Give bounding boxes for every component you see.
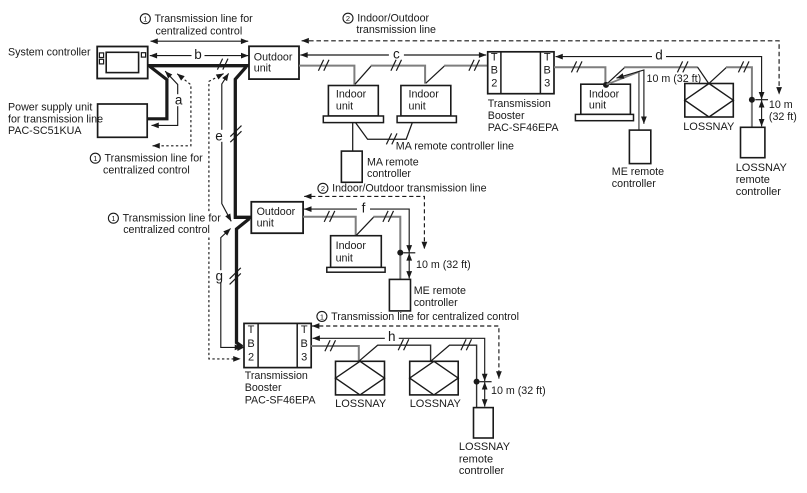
- svg-text:Indoor: Indoor: [336, 240, 367, 252]
- dimension line d: [556, 48, 762, 100]
- dimension line f: [304, 200, 409, 252]
- svg-text:controller: controller: [459, 465, 505, 477]
- svg-text:unit: unit: [409, 101, 426, 113]
- 10 m (32 ft) label (section 2): [416, 259, 471, 271]
- transmission booster 2 PAC-SF46EPA: [244, 323, 311, 367]
- svg-text:unit: unit: [254, 62, 271, 74]
- dimension line c: [300, 47, 486, 62]
- svg-text:Transmission line for: Transmission line for: [155, 13, 254, 25]
- svg-text:1: 1: [143, 15, 147, 24]
- indoor unit 1: [323, 86, 383, 123]
- svg-text:T: T: [544, 51, 551, 63]
- hash mark: [738, 61, 749, 72]
- svg-text:B: B: [301, 338, 308, 350]
- hash mark: [398, 339, 409, 350]
- junction dot (LOSSNAY remote controller 2): [474, 379, 480, 385]
- junction dot (ME remote controller 2): [397, 250, 403, 256]
- svg-text:(32 ft): (32 ft): [769, 111, 797, 123]
- hash mark on trunk (g span): [230, 268, 241, 285]
- system controller label: [8, 47, 91, 59]
- svg-text:T: T: [491, 51, 498, 63]
- svg-text:centralized control: centralized control: [103, 164, 190, 176]
- dimension: 10 m junction to LOSSNAY remote controller 2: [484, 382, 486, 406]
- hash mark: [469, 60, 480, 71]
- svg-text:2: 2: [491, 77, 497, 89]
- svg-text:b: b: [194, 47, 202, 62]
- svg-text:controller: controller: [736, 186, 782, 198]
- LOSSNAY 1 label: [683, 121, 735, 133]
- branch diagonal from indoor unit 3: [607, 67, 625, 84]
- hash mark: [324, 211, 335, 222]
- svg-text:1: 1: [320, 312, 324, 321]
- hash mark: [386, 133, 397, 144]
- svg-text:LOSSNAY: LOSSNAY: [459, 441, 511, 453]
- junction tick: [480, 381, 492, 383]
- hash mark: [677, 61, 688, 72]
- label: 1 Transmission line for centralized control (bottom): [317, 311, 519, 323]
- wire: TB3 to indoor unit 3: [554, 67, 605, 84]
- MA remote controller label: [367, 156, 419, 180]
- 10 m (32 ft) label (ME): [647, 73, 702, 85]
- svg-text:MA remote controller line: MA remote controller line: [396, 141, 514, 153]
- ME remote controller 2 label: [414, 285, 466, 309]
- svg-text:LOSSNAY: LOSSNAY: [736, 162, 788, 174]
- svg-text:B: B: [544, 64, 551, 76]
- svg-text:Transmission: Transmission: [488, 98, 551, 110]
- branch diagonal up from LOSSNAY 2b: [431, 345, 450, 361]
- svg-text:g: g: [215, 269, 223, 284]
- power supply unit label: [8, 101, 103, 137]
- MA remote controller line (between indoor units): [356, 123, 413, 139]
- svg-text:ME remote: ME remote: [414, 285, 466, 297]
- svg-text:1: 1: [93, 154, 97, 163]
- branch diagonal from indoor unit 1: [355, 66, 371, 84]
- branch diagonal up from LOSSNAY 2a: [359, 345, 378, 361]
- svg-text:10 m (32 ft): 10 m (32 ft): [491, 385, 546, 397]
- outdoor unit 1: [249, 46, 299, 79]
- svg-text:System controller: System controller: [8, 47, 91, 59]
- LOSSNAY 2b label: [410, 398, 462, 410]
- hash mark: [391, 60, 402, 71]
- hash mark on trunk (e span): [230, 126, 241, 143]
- svg-text:c: c: [393, 47, 400, 62]
- svg-text:ME remote: ME remote: [612, 166, 664, 178]
- svg-text:controller: controller: [612, 178, 656, 190]
- junction tick: [755, 99, 768, 101]
- svg-text:LOSSNAY: LOSSNAY: [410, 398, 462, 410]
- svg-text:d: d: [655, 48, 663, 63]
- svg-text:MA remote: MA remote: [367, 156, 419, 168]
- thick trunk wire: outdoor unit 2 to TB2 of booster 2: [237, 219, 250, 351]
- junction dot on indoor unit 3: [603, 82, 609, 88]
- svg-text:Outdoor: Outdoor: [257, 206, 296, 218]
- svg-text:unit: unit: [257, 217, 274, 229]
- svg-text:Transmission: Transmission: [245, 370, 308, 382]
- svg-text:T: T: [248, 324, 255, 336]
- branch diagonal from indoor unit: [356, 217, 374, 235]
- svg-text:controller: controller: [367, 168, 411, 180]
- branch diagonal up from LOSSNAY: [709, 67, 726, 83]
- outdoor unit 2: [251, 202, 303, 233]
- svg-text:LOSSNAY: LOSSNAY: [335, 398, 387, 410]
- wire: indoor unit 3 to LOSSNAY: [624, 66, 698, 68]
- MA remote controller: [341, 151, 362, 182]
- hash mark: [325, 340, 336, 351]
- hash mark: [383, 211, 394, 222]
- svg-text:Power supply unit: Power supply unit: [8, 101, 92, 113]
- wire: indoor unit 3 to ME remote controller: [607, 72, 639, 130]
- svg-text:PAC-SC51KUA: PAC-SC51KUA: [8, 125, 82, 137]
- svg-text:f: f: [362, 200, 366, 215]
- wire: LOSSNAY to junction and LOSSNAY remote controller: [726, 67, 752, 127]
- svg-text:T: T: [301, 324, 308, 336]
- thick trunk wire: down to outdoor unit 2: [235, 67, 251, 218]
- svg-text:for transmission line: for transmission line: [8, 113, 103, 125]
- ME remote controller 2: [389, 279, 410, 311]
- ME remote controller 1: [629, 130, 650, 164]
- MA remote controller wire (vertical): [352, 123, 354, 152]
- label: 2 Indoor/Outdoor transmission line (top): [343, 13, 436, 36]
- transmission booster 1 label: [488, 98, 560, 134]
- svg-text:remote: remote: [736, 174, 770, 186]
- dimension line b: [150, 47, 249, 62]
- svg-text:transmission line: transmission line: [356, 24, 436, 36]
- MA remote controller line label: [396, 141, 514, 153]
- wire: LOSSNAY 2a to LOSSNAY 2b: [378, 345, 431, 361]
- label: 2 Indoor/Outdoor transmission line (section 2): [318, 183, 487, 195]
- power supply unit PAC-SC51KUA: [98, 104, 148, 137]
- svg-text:Booster: Booster: [245, 382, 282, 394]
- thick branch wire to power supply unit: [148, 66, 167, 118]
- svg-text:Indoor: Indoor: [336, 88, 367, 100]
- junction tick: [403, 252, 415, 254]
- indoor unit (section 2): [327, 236, 385, 272]
- LOSSNAY 2b: [410, 361, 459, 395]
- hash mark: [318, 60, 329, 71]
- svg-text:Indoor: Indoor: [409, 88, 440, 100]
- dashed centralized-control line (bottom): [312, 326, 499, 379]
- svg-text:a: a: [175, 93, 183, 108]
- LOSSNAY remote controller 1: [741, 127, 765, 157]
- transmission booster 1 PAC-SF46EPA: [488, 51, 554, 93]
- LOSSNAY 2a label: [335, 398, 387, 410]
- dimension line g: [215, 229, 242, 348]
- svg-text:10 m (32 ft): 10 m (32 ft): [416, 259, 471, 271]
- wire: outdoor unit 2 to indoor unit: [303, 217, 356, 236]
- svg-text:B: B: [491, 64, 498, 76]
- dashed centralized-control line (to power supply branch): [153, 74, 191, 146]
- svg-text:unit: unit: [589, 99, 606, 111]
- svg-text:remote: remote: [459, 453, 493, 465]
- label: 1 Transmission line for centralized control (left): [90, 153, 203, 177]
- ME remote controller 1 label: [612, 166, 664, 190]
- svg-text:LOSSNAY: LOSSNAY: [683, 121, 735, 133]
- svg-text:PAC-SF46EPA: PAC-SF46EPA: [488, 122, 560, 134]
- LOSSNAY 2a: [336, 361, 385, 395]
- dimension line h: [313, 329, 485, 381]
- svg-text:Transmission line for centrali: Transmission line for centralized contro…: [331, 311, 519, 323]
- branch diagonal down to LOSSNAY: [698, 67, 709, 83]
- LOSSNAY remote controller 1 label: [736, 162, 788, 198]
- svg-text:unit: unit: [336, 101, 353, 113]
- svg-text:Transmission line for: Transmission line for: [105, 153, 204, 165]
- svg-text:2: 2: [346, 14, 350, 23]
- dashed indoor/outdoor transmission line (top, to far right): [302, 41, 779, 95]
- dashed centralized-control line (trunk to TB2): [209, 74, 241, 359]
- svg-text:Booster: Booster: [488, 110, 525, 122]
- svg-text:3: 3: [301, 352, 307, 364]
- 10 m (32 ft) label (bottom): [491, 385, 546, 397]
- svg-text:unit: unit: [336, 252, 353, 264]
- dimension line a: [152, 71, 184, 125]
- svg-text:Indoor/Outdoor transmission li: Indoor/Outdoor transmission line: [332, 183, 487, 195]
- transmission booster 2 label: [245, 370, 317, 407]
- LOSSNAY remote controller 2: [474, 408, 494, 438]
- svg-text:h: h: [388, 329, 396, 344]
- dimension: 10 m junction to LOSSNAY remote controller: [761, 100, 763, 126]
- LOSSNAY 1: [685, 84, 734, 118]
- svg-text:10 m: 10 m: [769, 99, 793, 111]
- dimension line e: [215, 73, 232, 221]
- dashed indoor/outdoor transmission line (section 2): [304, 196, 424, 249]
- junction dot (LOSSNAY remote controller): [749, 97, 755, 103]
- svg-text:controller: controller: [414, 297, 458, 309]
- wire: LOSSNAY 2b to junction and LOSSNAY remote controller 2: [449, 345, 476, 407]
- svg-text:B: B: [247, 338, 254, 350]
- wire: indoor unit to junction and ME remote controller: [373, 217, 400, 280]
- label: 1 Transmission line for centralized control (top): [140, 13, 253, 37]
- svg-text:centralized control: centralized control: [156, 25, 243, 37]
- svg-text:2: 2: [321, 184, 325, 193]
- dimension arrow: centralized control span: [151, 40, 249, 42]
- svg-text:2: 2: [248, 352, 254, 364]
- thick trunk wire: system controller to outdoor unit 1: [148, 64, 249, 67]
- wire: outdoor unit 1 to indoor unit 1: [299, 66, 354, 85]
- label: 1 Transmission line for centralized control (trunk): [103, 212, 221, 236]
- svg-text:1: 1: [111, 214, 115, 223]
- dimension: 10 m junction to ME remote controller 2: [408, 253, 410, 278]
- hash mark: [461, 339, 472, 350]
- indoor unit 3: [575, 84, 633, 121]
- hash mark: [571, 61, 582, 72]
- svg-text:PAC-SF46EPA: PAC-SF46EPA: [245, 394, 317, 406]
- svg-text:e: e: [215, 128, 223, 143]
- LOSSNAY remote controller 2 label: [459, 441, 511, 477]
- 10 m (32 ft) label (LOSSNAY): [769, 99, 797, 123]
- svg-text:Transmission line for: Transmission line for: [123, 213, 222, 225]
- indoor unit 2: [397, 86, 456, 123]
- system controller U1: [97, 47, 148, 79]
- wire: TB3 to LOSSNAY 2a: [311, 346, 359, 361]
- hash mark on thick trunk: [217, 59, 228, 70]
- svg-text:Indoor/Outdoor: Indoor/Outdoor: [357, 13, 429, 25]
- dimension: 10 m to ME remote controller: [617, 70, 644, 124]
- branch diagonal from indoor unit 2: [426, 66, 445, 84]
- svg-text:centralized control: centralized control: [123, 224, 210, 236]
- wire: indoor unit 1 to indoor unit 2: [371, 66, 425, 84]
- wire: indoor unit 2 to TB2 of booster 1: [444, 65, 487, 67]
- svg-text:3: 3: [544, 77, 550, 89]
